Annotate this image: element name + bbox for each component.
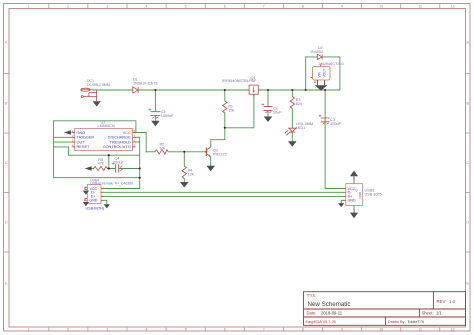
ground flag left of R5	[85, 166, 92, 170]
svg-text:4: 4	[146, 4, 148, 8]
svg-text:C: C	[5, 161, 8, 165]
wire USB4 D+ to USB3 D+	[104, 195, 344, 197]
svg-text:USB-B Female TH_C46360: USB-B Female TH_C46360	[90, 181, 133, 185]
svg-text:New Schematic: New Schematic	[308, 301, 351, 308]
svg-text:USB-3025: USB-3025	[365, 193, 382, 197]
svg-text:10k: 10k	[159, 146, 165, 150]
svg-text:11: 11	[418, 4, 422, 8]
capacitor C2	[262, 103, 283, 114]
svg-text:Drawn By: EddieT76: Drawn By: EddieT76	[388, 320, 424, 324]
svg-text:D: D	[5, 221, 8, 225]
svg-text:D: D	[466, 221, 469, 225]
svg-text:12: 12	[451, 4, 455, 8]
wire regulator loop right vertical	[339, 57, 341, 90]
svg-text:8: 8	[302, 327, 304, 331]
svg-text:1: 1	[28, 4, 30, 8]
ground under U1 (wide flag)	[315, 80, 328, 91]
resistor R5	[94, 158, 108, 171]
svg-text:12: 12	[451, 327, 455, 331]
wire R2 left feed	[146, 151, 155, 153]
ground flag above USB3 (pointing up)	[350, 171, 358, 181]
svg-text:LED1: LED1	[296, 126, 306, 130]
svg-text:5: 5	[185, 327, 187, 331]
wire R4 top	[183, 152, 185, 166]
svg-text:A: A	[5, 41, 8, 45]
voltage regulator U1	[311, 62, 344, 84]
ground under C1	[151, 121, 160, 127]
wire USB4 D- to USB3 D-	[104, 191, 344, 193]
wire 555 top loop	[54, 121, 136, 133]
wire Q2 base from junction	[168, 151, 206, 153]
wire C2 branch	[267, 90, 269, 106]
wire under 555 box	[69, 154, 140, 156]
wire main rail from DC jack to regulator loop	[93, 89, 340, 91]
resistor R2	[155, 143, 168, 154]
ground under R4	[180, 182, 189, 188]
svg-text:DC005-2.0MM: DC005-2.0MM	[87, 83, 110, 87]
ground flag at 555 GND pin (pointing left)	[64, 130, 71, 134]
svg-text:E: E	[467, 282, 470, 286]
wire junction to Q2 collector	[211, 128, 225, 147]
border ticks top	[49, 4, 440, 9]
svg-text:10: 10	[379, 327, 383, 331]
svg-text:1: 1	[28, 327, 30, 331]
svg-text:Date:: Date:	[307, 311, 317, 316]
wire C3 branch down to USB3 VCC	[325, 90, 343, 189]
junction dots	[108, 89, 326, 179]
svg-text:RESET: RESET	[77, 144, 91, 149]
diode D1	[133, 78, 158, 94]
wire USB4 VCC up to 555 net	[104, 178, 140, 189]
diode D2	[310, 46, 323, 59]
wire VCC pin to R2 feed	[136, 133, 147, 152]
ground under DC1	[93, 101, 101, 106]
svg-text:9: 9	[341, 327, 343, 331]
wire junction to Q1 gate	[225, 95, 254, 128]
svg-text:2: 2	[67, 327, 69, 331]
wire R1 bottom to junction	[224, 113, 226, 128]
wire USB3 GND to ground arrow	[341, 200, 343, 203]
IC U2 LM555CN	[72, 121, 136, 151]
svg-text:2018-09-11: 2018-09-11	[321, 311, 343, 316]
ground under C2	[264, 117, 273, 123]
svg-text:B: B	[5, 102, 8, 106]
capacitor C1	[149, 108, 175, 121]
capacitor C3	[319, 115, 342, 126]
svg-text:VOUT: VOUT	[322, 69, 326, 78]
DC jack DC1	[81, 79, 110, 101]
svg-text:PN2222: PN2222	[213, 153, 227, 157]
LED LED1	[284, 122, 313, 135]
svg-text:B: B	[467, 102, 470, 106]
svg-text:2: 2	[67, 4, 69, 8]
wire 555 left loop vertical	[53, 121, 55, 178]
wire USB4 GND to ground arrow	[104, 200, 107, 204]
border ticks left and right	[4, 74, 471, 253]
svg-text:820: 820	[296, 102, 302, 106]
svg-text:A: A	[467, 41, 470, 45]
svg-text:4: 4	[146, 327, 148, 331]
svg-text:TITLE:: TITLE:	[306, 294, 316, 298]
svg-text:10k: 10k	[188, 173, 194, 177]
svg-text:47k: 47k	[98, 162, 104, 166]
svg-text:1000uF: 1000uF	[161, 114, 175, 118]
USB connector USB4	[85, 179, 133, 211]
ground flag below USB3 (pointing down)	[350, 208, 358, 218]
wire Q2 emitter to ground	[210, 157, 212, 166]
wire R3 to LED1	[291, 109, 293, 129]
svg-text:5: 5	[185, 4, 187, 8]
title block	[304, 292, 466, 326]
svg-text:10uF: 10uF	[273, 111, 282, 115]
wire 555 right vertical bus	[139, 137, 141, 177]
svg-text:Sheet: 1/1: Sheet: 1/1	[422, 311, 443, 316]
svg-text:3: 3	[106, 4, 108, 8]
svg-text:6: 6	[224, 327, 226, 331]
svg-text:3: 3	[106, 327, 108, 331]
svg-text:GND: GND	[348, 199, 356, 203]
wire C1 branch	[154, 90, 156, 112]
svg-text:LM2940CT-5.0: LM2940CT-5.0	[319, 62, 344, 66]
wire discharge stub	[136, 136, 140, 138]
svg-text:GND: GND	[89, 199, 97, 203]
wire R5 C4 row	[92, 168, 140, 170]
ground under LED1	[288, 141, 297, 147]
capacitor C4	[112, 157, 125, 173]
wire regulator loop left vertical	[305, 57, 307, 90]
wire R3 branch	[291, 90, 293, 97]
ground at USB3 GND pin	[338, 203, 344, 207]
resistor R1	[223, 101, 235, 113]
USB connector USB3	[344, 181, 382, 208]
wire mid vertical to R5 C4 row	[108, 155, 110, 168]
svg-text:11: 11	[418, 327, 422, 331]
svg-text:C: C	[466, 161, 469, 165]
resistor R3	[290, 97, 302, 109]
ground under USB4 GND pin	[104, 204, 110, 208]
wire threshold stub	[136, 141, 140, 143]
border zone letters	[5, 41, 470, 286]
title block text	[306, 294, 456, 325]
svg-text:10: 10	[379, 4, 383, 8]
wire R1 branch from rail	[224, 90, 226, 101]
svg-text:IRF9540NSTRLPBF: IRF9540NSTRLPBF	[222, 79, 257, 83]
svg-text:E: E	[5, 282, 8, 286]
svg-text:10k: 10k	[228, 109, 234, 113]
svg-text:7: 7	[263, 327, 265, 331]
resistor R4	[182, 166, 194, 179]
svg-text:100uF: 100uF	[330, 122, 341, 126]
svg-text:100uF: 100uF	[113, 160, 124, 164]
transistor Q1 (P-MOSFET)	[222, 76, 261, 97]
svg-text:CONTROL/VTG: CONTROL/VTG	[103, 144, 131, 149]
wire regulator loop top with D2	[306, 56, 340, 58]
wire R4 bottom to ground	[183, 179, 185, 183]
border ticks bottom	[49, 327, 440, 331]
wire LED1 to ground	[291, 132, 293, 141]
svg-text:7: 7	[263, 4, 265, 8]
svg-text:1N5819-E3/73: 1N5819-E3/73	[133, 81, 158, 85]
svg-text:LM555CN: LM555CN	[98, 124, 115, 128]
svg-text:1N4004: 1N4004	[310, 50, 323, 54]
wire out to left vertical	[54, 141, 72, 143]
wire reset row to under-box wire	[54, 147, 69, 155]
ground flags on USB4 shield pins	[83, 191, 89, 207]
svg-text:8: 8	[302, 4, 304, 8]
svg-text:USB-B(TH): USB-B(TH)	[86, 206, 105, 210]
svg-text:REV: 1.0: REV: 1.0	[437, 299, 456, 304]
ground under Q2 emitter	[206, 166, 215, 172]
svg-text:6: 6	[224, 4, 226, 8]
svg-text:9: 9	[341, 4, 343, 8]
transistor Q2	[206, 147, 226, 157]
svg-text:EasyEDA V5.7.26: EasyEDA V5.7.26	[306, 320, 336, 324]
wire C2 to ground	[267, 111, 269, 117]
svg-text:GND: GND	[358, 191, 362, 199]
svg-text:VIN: VIN	[318, 71, 322, 77]
wire trigger to left vertical	[54, 136, 72, 138]
wire bottom of 555 loop	[54, 177, 140, 179]
